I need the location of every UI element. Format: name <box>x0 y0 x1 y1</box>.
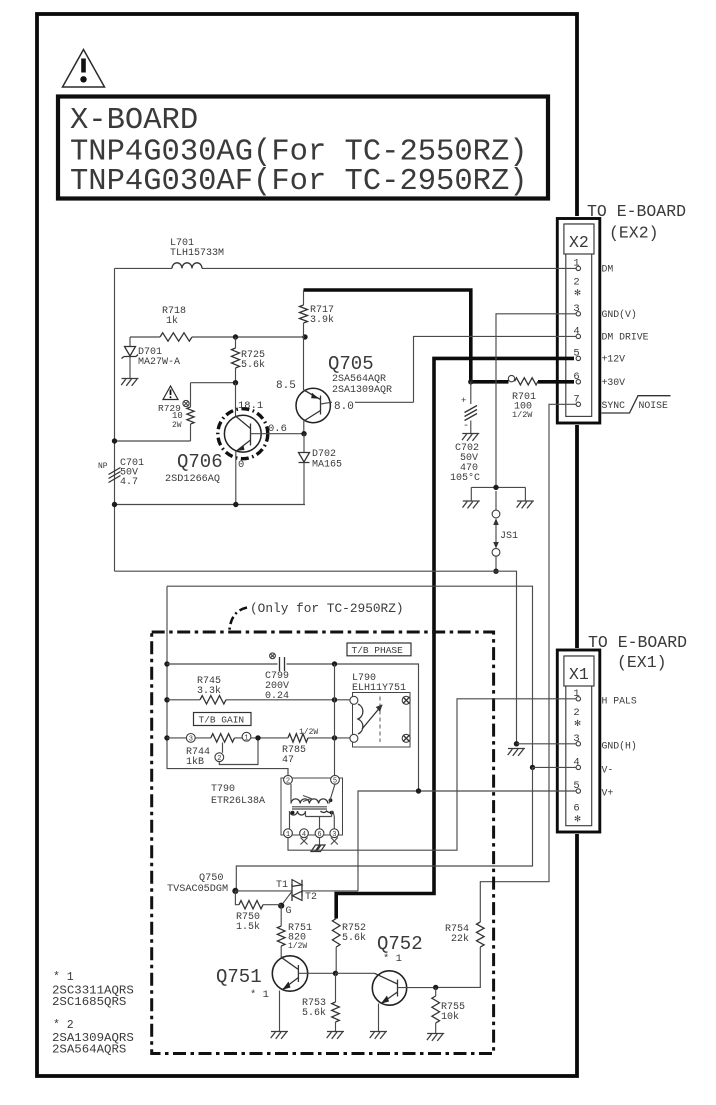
capacitor C701 <box>98 458 144 488</box>
node R717 top <box>302 334 307 339</box>
T/B GAIN box <box>194 713 252 726</box>
svg-text:(EX2): (EX2) <box>609 224 659 243</box>
svg-text:TO E-BOARD: TO E-BOARD <box>588 633 687 652</box>
svg-text:Q750: Q750 <box>199 873 223 884</box>
connector X2 <box>555 216 602 425</box>
ground R755 <box>427 1034 444 1041</box>
wire R718 row <box>130 336 305 338</box>
thyristor Q750 <box>167 873 358 917</box>
svg-text:2SC1685QRS: 2SC1685QRS <box>52 995 126 1009</box>
svg-text:* 1: * 1 <box>250 989 269 1001</box>
svg-text:TVSAC05DGM: TVSAC05DGM <box>167 884 228 895</box>
svg-text:G: G <box>286 906 292 917</box>
svg-text:+12V: +12V <box>602 354 626 365</box>
node X1 pin3 gnd <box>514 741 519 746</box>
svg-text:47: 47 <box>282 755 294 766</box>
wire V- run: T/B rail to X1 pin4 and down to Q750 <box>167 586 533 767</box>
transistor Q706 <box>165 383 304 505</box>
node JS1 bottom <box>493 569 498 574</box>
svg-text:5.6k: 5.6k <box>302 1007 326 1019</box>
svg-text:2SD1266AQ: 2SD1266AQ <box>165 474 220 485</box>
ground Q752 <box>370 1032 387 1039</box>
svg-text:NP: NP <box>98 462 108 471</box>
node Q751 base <box>333 971 338 976</box>
svg-text:5.6k: 5.6k <box>342 932 366 944</box>
svg-text:T2: T2 <box>305 892 317 903</box>
svg-text:0.6: 0.6 <box>268 423 287 435</box>
X1 pin labels <box>602 696 637 799</box>
ground R753 <box>327 1032 344 1039</box>
svg-text:1/2W: 1/2W <box>512 410 533 420</box>
svg-text:DM: DM <box>602 264 614 275</box>
resistor R753 <box>302 973 339 1031</box>
svg-text:X2: X2 <box>569 233 589 252</box>
wire R729 bottom to left rail <box>115 440 191 442</box>
svg-text:(EX1): (EX1) <box>617 653 667 672</box>
svg-text:0: 0 <box>238 459 244 471</box>
resistor R701 <box>508 375 538 420</box>
ground C702 <box>462 434 479 441</box>
svg-text:3.3k: 3.3k <box>197 685 221 697</box>
wire T/B row3 <box>167 737 350 739</box>
svg-text:18.1: 18.1 <box>238 400 263 412</box>
X1 pins <box>573 688 581 825</box>
note *2 <box>52 1019 134 1057</box>
node top row / L790 feed <box>332 661 337 666</box>
svg-text:MA27W-A: MA27W-A <box>138 357 180 368</box>
svg-text:TO E-BOARD: TO E-BOARD <box>587 202 686 221</box>
title box <box>58 97 548 199</box>
ground right of JS1 <box>517 501 534 508</box>
svg-text:1kB: 1kB <box>186 756 204 768</box>
+30V thick bus (X2 pin6 - R701 - R717) <box>304 290 471 382</box>
wire left rail <box>114 268 116 571</box>
node Q705 emitter/D702 <box>301 431 306 436</box>
transistor Q751 <box>216 956 336 1031</box>
svg-text:2W: 2W <box>172 421 182 430</box>
svg-text:2: 2 <box>573 277 579 289</box>
svg-text:DM DRIVE: DM DRIVE <box>602 332 649 343</box>
board outer border <box>37 14 577 1076</box>
svg-text:SYNC: SYNC <box>602 400 626 411</box>
ground Q751 <box>271 1032 288 1039</box>
svg-text:✻: ✻ <box>574 815 581 825</box>
node Q752 collector / R755 <box>433 985 438 990</box>
node R718/R725 <box>233 334 238 339</box>
svg-text:8.5: 8.5 <box>276 380 296 392</box>
transformer T790 <box>211 775 343 844</box>
transistor Q705 <box>276 337 414 434</box>
svg-text:105°C: 105°C <box>450 472 480 484</box>
resistor R750 <box>235 891 281 933</box>
svg-text:2SA1309AQR: 2SA1309AQR <box>332 385 392 396</box>
node V+/T-B feed <box>416 788 421 793</box>
svg-text:D702: D702 <box>312 449 336 460</box>
leader curve <box>230 608 248 631</box>
svg-text:T/B GAIN: T/B GAIN <box>199 715 245 726</box>
svg-text:3.9k: 3.9k <box>310 314 334 326</box>
svg-text:4: 4 <box>302 831 306 839</box>
wire pin3 GND(V) <box>496 314 576 488</box>
resistor R717 <box>303 290 305 305</box>
svg-text:V-: V- <box>602 765 614 776</box>
wire bottom rail <box>115 504 306 506</box>
svg-text:T1: T1 <box>276 880 288 891</box>
title text <box>70 104 528 199</box>
coil L790 <box>350 673 410 747</box>
svg-text:* 1: * 1 <box>53 971 74 984</box>
wire SYNC run: X2 pin7 down to R754 <box>480 404 576 922</box>
svg-text:T/B PHASE: T/B PHASE <box>352 645 404 656</box>
svg-text:T790: T790 <box>211 784 235 795</box>
warning symbol <box>63 50 105 88</box>
resistor R754 <box>436 922 484 987</box>
svg-text:Q751: Q751 <box>216 966 262 988</box>
svg-text:+: + <box>461 396 466 406</box>
svg-text:V+: V+ <box>602 788 614 799</box>
svg-text:JS1: JS1 <box>500 531 518 542</box>
jumper JS1 <box>492 491 518 571</box>
svg-text:ETR26L38A: ETR26L38A <box>211 796 265 807</box>
svg-text:2: 2 <box>573 707 579 719</box>
svg-text:2SA564AQRS: 2SA564AQRS <box>52 1043 126 1057</box>
note *1 <box>52 971 134 1009</box>
svg-text:Q706: Q706 <box>177 451 223 473</box>
resistor R755 <box>432 987 465 1033</box>
wire node to R729 <box>191 382 236 384</box>
svg-text:5.6k: 5.6k <box>241 359 265 371</box>
svg-text:4.7: 4.7 <box>120 477 138 488</box>
node +30V junction <box>468 379 473 384</box>
resistor R725 <box>235 337 237 348</box>
ground left of JS1 <box>463 501 480 508</box>
svg-text:GND(H): GND(H) <box>602 741 637 752</box>
wire ground spreader <box>471 487 525 500</box>
svg-text:1: 1 <box>244 734 248 742</box>
svg-text:2: 2 <box>286 777 290 785</box>
wire pin4 DM DRIVE to Q705 base <box>414 336 577 402</box>
connector X1 <box>555 648 602 834</box>
svg-text:MA165: MA165 <box>312 460 342 471</box>
resistor R729 with warning <box>158 383 194 441</box>
svg-text:* 1: * 1 <box>383 953 402 965</box>
wire T/B left rail <box>167 586 288 775</box>
wire T/B row2 <box>167 699 350 701</box>
option dash-dot box (Only for TC-2950RZ) <box>152 632 494 1054</box>
ground X1 pin3 <box>508 749 525 756</box>
svg-text:10k: 10k <box>441 1011 459 1023</box>
svg-text:Q752: Q752 <box>377 933 423 955</box>
svg-text:8.0: 8.0 <box>334 401 354 413</box>
svg-text:22k: 22k <box>451 933 469 945</box>
svg-text:-: - <box>463 421 469 432</box>
resistor R785 <box>288 734 308 742</box>
wire DM net top rail <box>115 267 173 269</box>
X2 pins <box>573 257 581 406</box>
svg-text:1.5k: 1.5k <box>236 921 260 933</box>
transistor Q752 <box>372 933 435 1031</box>
svg-text:X-BOARD: X-BOARD <box>70 104 198 138</box>
ground D701 <box>121 379 138 386</box>
svg-text:✻: ✻ <box>574 289 581 299</box>
capacitor C799 <box>265 653 289 702</box>
diode D701 <box>122 337 181 378</box>
svg-text:10: 10 <box>172 411 183 421</box>
wire GND(H) run: left rail to X1 pin3 <box>115 571 517 744</box>
svg-text:Q705: Q705 <box>328 353 374 375</box>
svg-text:3: 3 <box>332 831 336 839</box>
resistor R752 <box>332 919 366 974</box>
wire T/B right rail down to T790 pin5 <box>334 664 336 776</box>
wire T/B top row <box>167 664 419 791</box>
X2 pin labels <box>602 264 671 414</box>
svg-text:GND(V): GND(V) <box>602 309 637 320</box>
ground T790 <box>319 838 321 846</box>
svg-text:+30V: +30V <box>602 377 626 388</box>
capacitor C702 <box>450 382 480 484</box>
resistor R718 <box>160 333 192 341</box>
svg-text:TNP4G030AF(For TC-2950RZ): TNP4G030AF(For TC-2950RZ) <box>70 165 528 199</box>
+12V thick bus (X2 pin5 down to R752) <box>336 358 574 918</box>
potentiometer R744 <box>186 732 258 768</box>
svg-text:1/2W: 1/2W <box>299 728 318 737</box>
wire H PALS: T790 pin1 to X1 pin1 <box>288 699 576 850</box>
svg-text:6: 6 <box>573 803 579 815</box>
svg-text:1k: 1k <box>166 315 178 327</box>
svg-text:2SA564AQR: 2SA564AQR <box>332 374 386 385</box>
svg-text:1/2W: 1/2W <box>288 942 307 951</box>
resistor R751 <box>277 906 312 958</box>
wire Q751 base to Q752 <box>336 972 375 974</box>
inductor L701 <box>172 263 202 269</box>
svg-text:3: 3 <box>189 736 193 744</box>
svg-text:TLH15733M: TLH15733M <box>170 248 224 259</box>
T/B PHASE box <box>347 643 411 656</box>
svg-text:NOISE: NOISE <box>639 400 669 411</box>
svg-text:✻: ✻ <box>574 719 581 729</box>
resistor R745 <box>200 696 226 704</box>
diode D702 <box>299 434 343 505</box>
wire V+ : X1 pin5 to triac T2 <box>358 791 576 891</box>
svg-text:(Only for TC-2950RZ): (Only for TC-2950RZ) <box>250 601 404 616</box>
svg-text:H PALS: H PALS <box>602 696 637 707</box>
svg-text:X1: X1 <box>569 665 589 684</box>
